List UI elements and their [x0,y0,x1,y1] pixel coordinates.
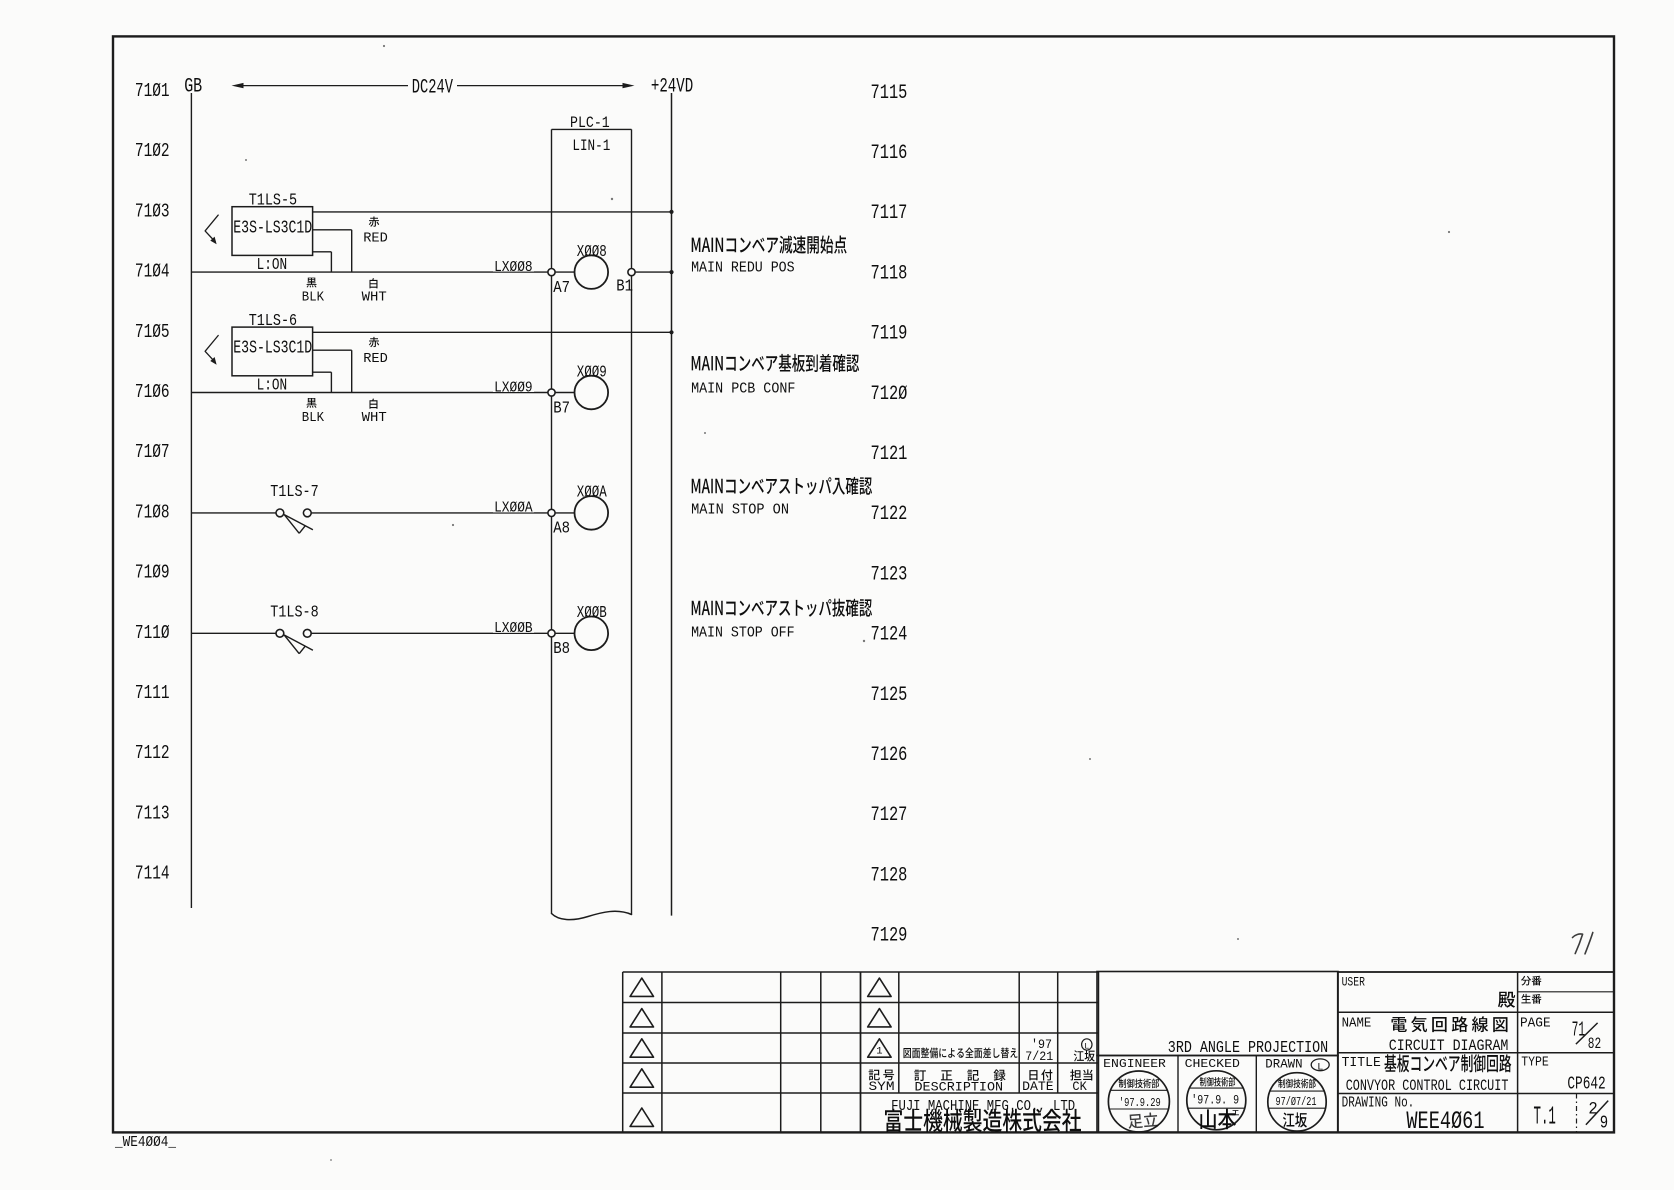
handwritten page number 71 [1573,933,1593,954]
description MAIN REDU POS [691,236,847,277]
field DRAWING No. WEE4061 [1342,1096,1485,1137]
svg-text:'97.9.29: '97.9.29 [1119,1096,1161,1110]
stamp ENGINEER [1108,1071,1169,1132]
svg-text:711Ø: 711Ø [135,622,170,644]
svg-text:7116: 7116 [871,142,908,165]
label T1LS-6 [249,312,297,331]
svg-text:SYM: SYM [869,1080,895,1094]
beam arrow T1LS-6 [205,336,218,365]
field TITLE 基板コンベア制御回路 CONVYOR CONTROL CIRCUIT [1342,1054,1512,1095]
svg-text:LXØØB: LXØØB [494,620,532,637]
node 7127 [871,804,908,827]
label LIN-1 [572,137,610,155]
label WHT [362,278,387,305]
svg-text:71Ø1: 71Ø1 [135,80,170,102]
svg-text:USER: USER [1342,975,1366,989]
svg-text:A8: A8 [553,520,570,539]
revision table right [861,972,1099,1132]
header SYM [869,1070,895,1095]
svg-text:LIN-1: LIN-1 [572,137,610,155]
svg-text:T1LS-5: T1LS-5 [249,191,297,210]
svg-text:71Ø7: 71Ø7 [135,441,170,463]
wire B1 to +24VD bus [635,271,671,273]
svg-text:7111: 7111 [135,682,170,704]
label L:ON [257,256,288,275]
bus GB (left vertical) [190,93,192,908]
node 7105 [135,321,170,343]
node 7106 [135,381,170,403]
header DESCRIPTION [914,1069,1005,1094]
svg-text:82: 82 [1588,1035,1601,1053]
value label E3S-LS3C1D [233,339,312,359]
svg-text:7117: 7117 [871,202,908,225]
svg-text:XØØA: XØØA [577,484,608,503]
PLC input coil X00B [575,604,609,650]
node 7120 [871,383,908,406]
node 7104 [135,261,170,283]
svg-text:71Ø8: 71Ø8 [135,501,170,523]
svg-text:7115: 7115 [871,82,908,105]
svg-text:7/21: 7/21 [1025,1050,1053,1064]
node 7107 [135,441,170,463]
wire 7104 (LX008) [191,271,574,273]
photoelectric sensor T1LS-6 body [232,327,313,376]
node 7109 [135,562,170,584]
label RED [363,217,388,247]
field PAGE 71/82 [1520,1015,1601,1053]
svg-text:7112: 7112 [135,742,170,764]
svg-text:PAGE: PAGE [1520,1015,1551,1031]
dimension DC24V [232,76,635,99]
svg-text:7126: 7126 [871,744,908,767]
junction pin A7 [548,269,570,298]
svg-text:DRAWING No.: DRAWING No. [1342,1096,1415,1112]
stamp DRAWN [1268,1073,1326,1131]
revision mark 1 [876,1045,882,1057]
node 7114 [135,863,170,885]
node 7110 [135,622,170,644]
limit switch T1LS-8 [191,629,313,653]
svg-text:_WE4ØØ4_: _WE4ØØ4_ [114,1134,177,1151]
wire 7106 (LX009) [191,392,574,394]
svg-text:DC24V: DC24V [412,76,453,99]
revision table left [623,972,861,1132]
node 7116 [871,142,908,165]
svg-text:DRAWN: DRAWN [1265,1057,1302,1071]
node 7124 [871,624,908,647]
node 7123 [871,563,908,586]
svg-text:7113: 7113 [135,802,170,824]
svg-text:CK: CK [1072,1080,1087,1094]
svg-text:WHT: WHT [362,410,387,426]
svg-text:T1LS-8: T1LS-8 [270,603,318,622]
svg-text:7123: 7123 [871,563,908,586]
svg-text:WEE4Ø61: WEE4Ø61 [1406,1107,1484,1136]
node 7117 [871,202,908,225]
stamp CHECKED [1187,1071,1246,1130]
svg-text:7127: 7127 [871,804,908,827]
svg-text:BLK: BLK [302,289,325,305]
description MAIN STOP OFF [691,599,872,642]
value label E3S-LS3C1D [233,218,312,238]
wire label LX00A [493,500,534,517]
PLC connector PLC-1 box [552,129,632,919]
svg-text:XØØ8: XØØ8 [577,243,607,262]
node 7111 [135,682,170,704]
net label +24VD [651,75,693,98]
svg-text:7118: 7118 [871,262,908,285]
svg-text:DESCRIPTION: DESCRIPTION [915,1081,1004,1095]
svg-text:TITLE: TITLE [1342,1055,1381,1071]
svg-text:7122: 7122 [871,503,908,526]
svg-text:1: 1 [876,1045,882,1057]
title block frame [1338,972,1614,1132]
svg-text:RED: RED [363,230,388,246]
node 7101 [135,80,170,102]
svg-text:7128: 7128 [871,864,908,887]
svg-text:L: L [1084,1041,1089,1051]
label T1LS-7 [270,483,318,502]
label BLK [302,278,325,306]
node 7115 [871,82,908,105]
revision note [904,1048,1018,1059]
PLC input coil X00A [575,484,609,530]
node 7126 [871,744,908,767]
field TYPE CP642 [1521,1055,1606,1095]
node 7125 [871,684,908,707]
svg-text:71: 71 [1572,1020,1586,1043]
svg-text:97/Ø7/21: 97/Ø7/21 [1276,1096,1317,1109]
svg-text:FUJI MACHINE MFG.CO., LTD: FUJI MACHINE MFG.CO., LTD [891,1099,1075,1115]
label PLC-1 [570,114,610,132]
svg-text:71Ø3: 71Ø3 [135,200,170,222]
3rd angle projection box [1097,972,1338,1058]
photoelectric sensor T1LS-5 body [232,207,313,256]
svg-text:XØØ9: XØØ9 [577,363,607,382]
wire label LX00B [493,620,534,637]
svg-text:T1LS-6: T1LS-6 [249,312,297,331]
description MAIN PCB CONF [691,354,859,398]
svg-text:MAIN PCB CONF: MAIN PCB CONF [691,381,795,398]
svg-text:T1LS-7: T1LS-7 [270,483,318,502]
field NAME 電気回路線図 CIRCUIT DIAGRAM [1342,1015,1509,1055]
junction pin B1 [616,269,635,297]
node 7112 [135,742,170,764]
node 7122 [871,503,908,526]
svg-text:ENGINEER: ENGINEER [1103,1057,1166,1071]
svg-text:7121: 7121 [871,443,908,466]
label T1LS-5 [249,191,297,210]
svg-text:71Ø2: 71Ø2 [135,140,170,162]
label RED [363,337,388,367]
wire RED T1LS-5 [313,230,352,272]
svg-text:CP642: CP642 [1567,1075,1605,1095]
approval row [1097,1056,1338,1133]
svg-text:7129: 7129 [871,925,908,948]
PLC input coil X009 [575,363,609,409]
svg-text:WHT: WHT [362,289,387,305]
svg-text:B1: B1 [616,278,633,297]
PLC input coil X008 [575,243,609,289]
node 7129 [871,925,908,948]
svg-text:GB: GB [184,75,202,98]
field sheet 2/9 [1586,1100,1608,1134]
node 7119 [871,323,908,346]
header DATE [1022,1069,1053,1094]
svg-text:T.1: T.1 [1534,1102,1556,1132]
svg-text:71Ø4: 71Ø4 [135,261,170,283]
svg-text:MAIN STOP ON: MAIN STOP ON [691,502,789,519]
limit switch T1LS-7 [191,509,313,533]
svg-text:PLC-1: PLC-1 [570,114,610,132]
node 7103 [135,200,170,222]
svg-text:B8: B8 [553,640,570,659]
node 7108 [135,501,170,523]
svg-text:E3S-LS3C1D: E3S-LS3C1D [233,218,312,238]
svg-text:712Ø: 712Ø [871,383,908,406]
beam arrow T1LS-5 [205,215,218,244]
svg-text:MAIN REDU POS: MAIN REDU POS [691,259,795,276]
node 7102 [135,140,170,162]
svg-text:L: L [1317,1062,1323,1073]
label L:ON [257,377,288,396]
svg-text:LXØØA: LXØØA [494,500,532,517]
svg-text:RED: RED [363,351,388,367]
label T1LS-8 [270,603,318,622]
svg-text:9: 9 [1600,1112,1608,1133]
wire 7103 (sensor brown to +24VD bus) [313,211,672,213]
svg-text:71Ø5: 71Ø5 [135,321,170,343]
drawing code _WE4004_ [114,1134,177,1151]
wire 7105 (sensor brown to +24VD bus) [313,331,672,333]
node 7113 [135,802,170,824]
svg-text:CIRCUIT DIAGRAM: CIRCUIT DIAGRAM [1389,1037,1509,1055]
revision date [1025,1038,1053,1064]
svg-text:LXØØ9: LXØØ9 [494,379,532,396]
wire label LX008 [493,259,534,276]
wire BLK T1LS-6 [313,372,332,392]
svg-text:DATE: DATE [1022,1080,1053,1094]
svg-text:A7: A7 [553,279,570,298]
svg-text:7124: 7124 [871,624,908,647]
field USER [1342,975,1542,1007]
svg-text:TYPE: TYPE [1521,1055,1549,1071]
wire label LX009 [493,379,534,396]
svg-text:'97.9. 9: '97.9. 9 [1191,1093,1239,1107]
junction pin B7 [548,389,570,418]
svg-text:B7: B7 [553,399,570,418]
field sheet T.1 [1534,1102,1556,1132]
svg-text:NAME: NAME [1342,1015,1372,1031]
junction pin B8 [548,630,570,659]
label WHT [362,399,387,426]
label BLK [302,398,325,426]
svg-text:MAIN STOP OFF: MAIN STOP OFF [691,625,795,642]
net label GB [184,75,202,98]
wire RED T1LS-6 [313,350,352,392]
description MAIN STOP ON [691,477,872,519]
wire BLK T1LS-5 [313,252,332,272]
svg-text:7114: 7114 [135,863,170,885]
revision CK [1074,1039,1095,1062]
wire 7110 (LX00B) [311,632,574,634]
wire 7108 (LX00A) [311,512,574,514]
header CK [1070,1069,1092,1094]
svg-text:XØØB: XØØB [577,604,607,623]
svg-text:7119: 7119 [871,323,908,346]
bus +24VD (right vertical) [669,93,673,916]
svg-text:E3S-LS3C1D: E3S-LS3C1D [233,339,312,359]
svg-text:BLK: BLK [302,410,325,426]
maker FUJI MACHINE MFG.CO., LTD [885,1099,1081,1132]
node 7118 [871,262,908,285]
svg-text:LXØØ8: LXØØ8 [494,259,532,276]
svg-text:CONVYOR CONTROL CIRCUIT: CONVYOR CONTROL CIRCUIT [1346,1077,1509,1095]
svg-text:7125: 7125 [871,684,908,707]
svg-text:CHECKED: CHECKED [1185,1057,1240,1071]
node 7121 [871,443,908,466]
junction pin A8 [548,509,570,538]
svg-text:71Ø6: 71Ø6 [135,381,170,403]
node 7128 [871,864,908,887]
svg-text:71Ø9: 71Ø9 [135,562,170,584]
